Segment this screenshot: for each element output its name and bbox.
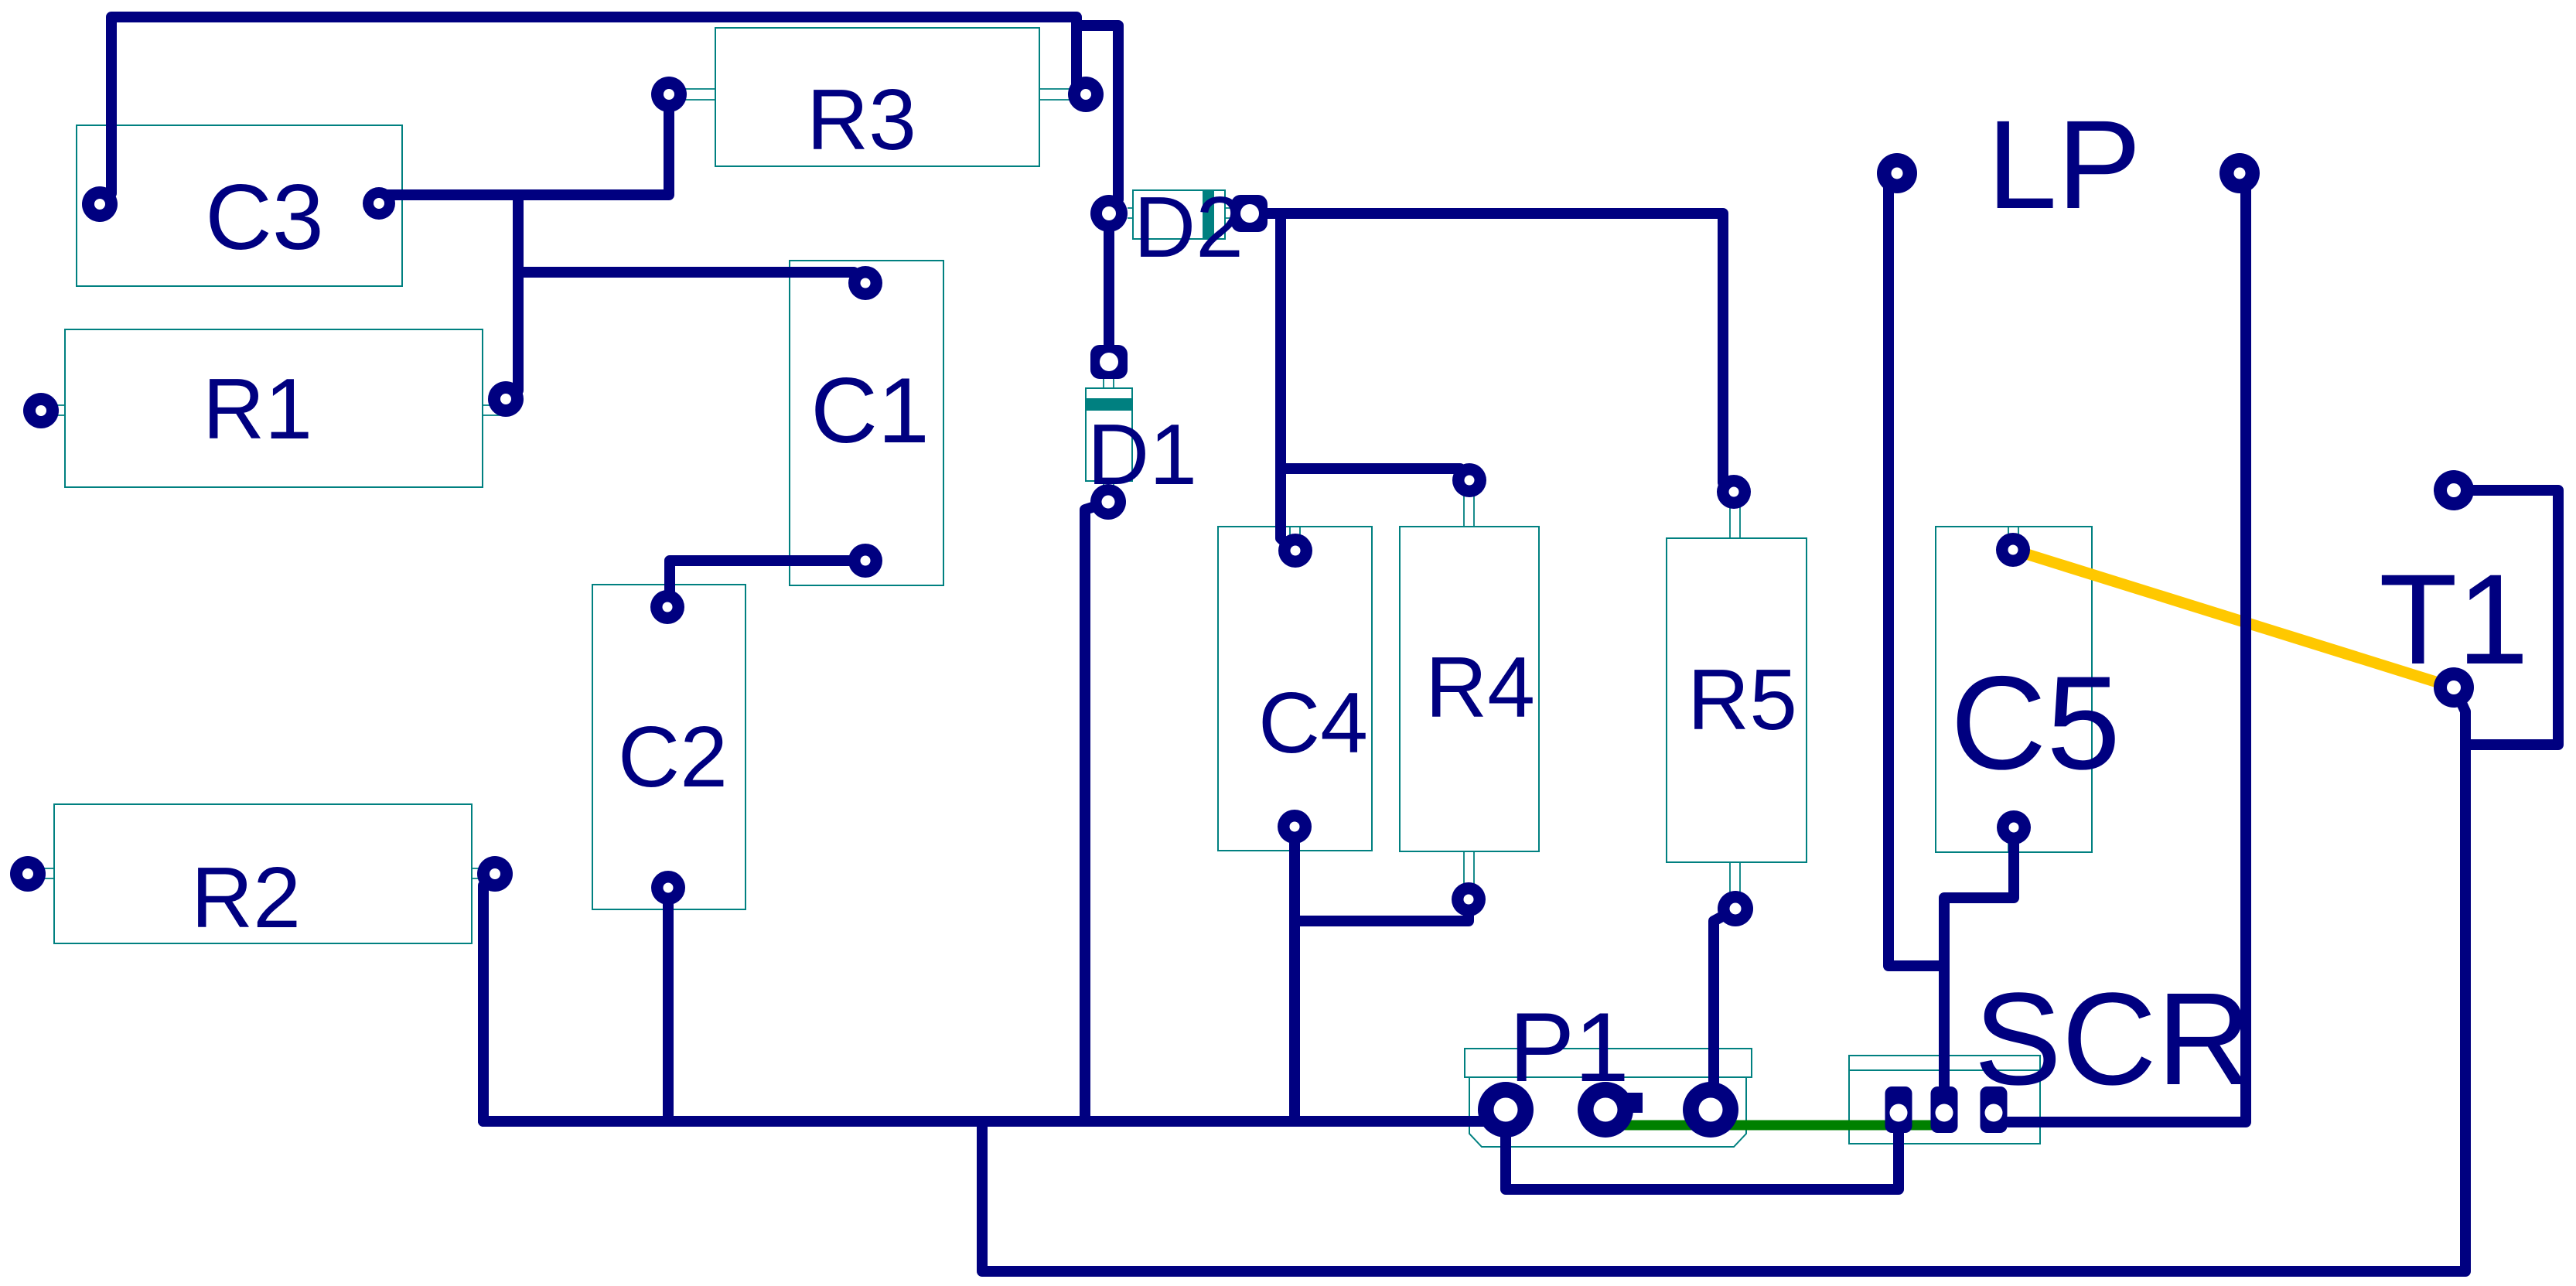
wire D1 pad2 to bus (1085, 503, 1107, 1121)
pad R5.2 (1718, 891, 1753, 926)
R4 pad stubs (1464, 484, 1474, 895)
pad T1.1 (2434, 470, 2474, 510)
R5 pad stubs (1730, 496, 1740, 905)
svg-text:C5: C5 (1950, 649, 2121, 797)
pad R1.1 (23, 393, 59, 428)
wire to R4 pad1 (1281, 469, 1469, 477)
svg-text:R5: R5 (1687, 652, 1797, 748)
pad LP.1 (1877, 153, 1917, 193)
svg-text:C1: C1 (810, 359, 929, 462)
pad T1.2 (2434, 667, 2474, 708)
C5 pad stubs (2008, 527, 2018, 852)
wire P1 pad1 to SCR pad1 (U route) (1506, 1108, 1899, 1189)
wire C3 pad2 to R3 pad1 (380, 97, 669, 203)
pad C2.1 (650, 590, 684, 624)
yellow wire C5 pad1 to T1 pad2 (2013, 550, 2454, 687)
svg-text:C2: C2 (618, 709, 728, 805)
svg-text:R4: R4 (1425, 640, 1535, 735)
wire D2 pad1 to D1 pad1 (1104, 215, 1114, 360)
pad C5.2 (1997, 810, 2031, 844)
wire LP pad2 down to SCR pad3 (2008, 182, 2246, 1122)
wire branch to C1 pad1 (518, 272, 865, 282)
diode D1 cathode bar (1086, 398, 1132, 411)
diode D2 outline (1133, 190, 1225, 239)
wire C5 pad2 to SCR pad2 (1944, 829, 2014, 1104)
pad C3.1 (82, 186, 118, 222)
pad SCR.2 (1931, 1086, 1958, 1133)
pad R1.2 (488, 381, 524, 417)
diode D1 outline (1086, 388, 1132, 481)
wire T1 pad2 link (2456, 691, 2465, 745)
resistor R2 outline (54, 804, 472, 943)
wire D2 pad2 to R5 pad1 (1251, 213, 1732, 491)
svg-text:R2: R2 (191, 850, 301, 946)
capacitor C4 outline (1218, 527, 1372, 851)
pad R5.1 (1717, 475, 1751, 509)
capacitor C1 outline (790, 261, 943, 585)
R3 pad stubs (671, 89, 1083, 100)
svg-text:R3: R3 (807, 72, 916, 168)
pad R2.2 (477, 856, 513, 892)
pad SCR.1 (1885, 1086, 1912, 1133)
wire C2 pad2 down to bus (663, 888, 674, 1121)
wire junction down to R1 pad2 (508, 195, 518, 400)
pad C4.2 (1278, 810, 1312, 844)
diode D2 cathode bar (1203, 190, 1214, 239)
svg-text:C3: C3 (205, 165, 323, 269)
svg-text:D1: D1 (1087, 407, 1197, 503)
capacitor C3 outline (77, 125, 402, 286)
wire R5 pad2 to P1 pad3 (1714, 910, 1734, 1104)
pad R4.2 (1452, 882, 1486, 916)
pad D2.2 square (1231, 195, 1268, 232)
svg-text:D2: D2 (1134, 179, 1244, 275)
pad R3.1 (651, 77, 687, 112)
wire C4 pad2 down to bus (1289, 828, 1300, 1121)
pads (10, 77, 2474, 1138)
R2 pad stubs (29, 868, 493, 878)
component outline boxes (teal) (54, 28, 2092, 1147)
pad LP.2 (2219, 153, 2260, 193)
pad D1.1 square (1090, 345, 1128, 379)
pad R4.1 (1452, 463, 1486, 497)
pad P1.1 (1478, 1082, 1534, 1138)
svg-text:R1: R1 (203, 361, 312, 457)
resistor R1 outline (65, 329, 483, 487)
wire into C3 pad1 (101, 192, 111, 202)
pad C1.1 (848, 266, 882, 300)
wire R3 pad2 to D2 pad1 (1081, 26, 1118, 209)
wire to C4 pad1 (1281, 469, 1292, 549)
capacitor C2 outline (592, 585, 746, 909)
wire LP pad1 down (1888, 182, 1943, 966)
pad C2.2 (651, 871, 685, 905)
pad SCR.3 (1981, 1086, 2008, 1133)
resistor R3 outline (715, 28, 1039, 166)
pad P1.2 wiper tab (1624, 1093, 1643, 1113)
pad P1.3 (1683, 1082, 1738, 1138)
resistor R4 outline (1400, 527, 1539, 851)
wire top bus net1 (111, 17, 1085, 193)
pad C4.1 (1278, 534, 1312, 568)
svg-text:LP: LP (1987, 94, 2141, 235)
pad R3.2 (1068, 77, 1104, 112)
wire T1 pad1 loop (2455, 490, 2558, 745)
wire C1 pad2 to C2 pad1 (668, 561, 865, 605)
D1 pad stubs (1104, 379, 1114, 500)
pad stub lines (teal) (29, 89, 2018, 905)
resistor R5 outline (1667, 538, 1807, 862)
wire R2 pad2 down to bus (483, 875, 494, 1121)
SCR outline (1849, 1056, 2040, 1144)
svg-text:C4: C4 (1258, 675, 1368, 771)
pad D1.2 (1090, 484, 1126, 520)
capacitor C5 outline (1936, 527, 2092, 852)
wire main bus to P1 pad1 (483, 1116, 1504, 1127)
pad C3.2 (363, 187, 395, 220)
wire bottom bus (982, 745, 2465, 1271)
pad R2.1 (10, 856, 46, 892)
potentiometer P1 outline (1465, 1049, 1752, 1077)
svg-text:SCR: SCR (1974, 966, 2252, 1113)
svg-text:P1: P1 (1509, 992, 1629, 1102)
R1 pad stubs (43, 405, 503, 415)
wire junction down from net (1275, 213, 1286, 469)
pad C5.1 (1996, 533, 2030, 567)
pad D2.1 (1090, 195, 1128, 232)
C4 pad stubs (1290, 527, 1300, 548)
svg-text:T1: T1 (2379, 548, 2529, 691)
green wire P1 pad2 to SCR pad1 (1615, 1121, 1948, 1131)
pad P1.2 (1578, 1082, 1633, 1138)
wire R4 pad2 to C4 net (1295, 901, 1469, 921)
pad C1.2 (848, 544, 882, 578)
D2 pad stubs (1128, 208, 1231, 218)
